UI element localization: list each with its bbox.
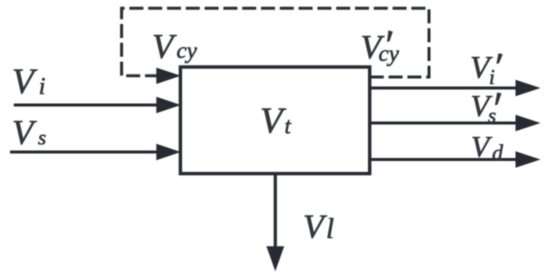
wire: output V_i' [370, 87, 518, 90]
wire: output V_l down [274, 175, 277, 248]
label V_i [12, 61, 45, 101]
svg-text:s: s [488, 104, 496, 128]
svg-text:V: V [303, 209, 328, 246]
wire: output V_s' [370, 122, 518, 125]
label V_s [12, 113, 46, 152]
label V_d [471, 131, 504, 166]
arrowhead: dashed feedback into box [156, 68, 181, 84]
arrowhead: V_i into box [156, 97, 181, 113]
arrowhead: V_s' output [516, 115, 541, 132]
svg-text:V: V [12, 113, 37, 152]
svg-text:cy: cy [177, 38, 198, 63]
label V_l [303, 209, 334, 246]
label V_s' [471, 88, 502, 128]
wire: dashed feedback loop Vcy [122, 8, 429, 77]
wire: output V_d [370, 158, 518, 161]
svg-text:V: V [260, 101, 287, 142]
svg-text:V: V [152, 27, 177, 66]
svg-text:V: V [12, 61, 38, 101]
arrowhead: V_l down [266, 246, 284, 271]
block U1 (V_t box) [180, 67, 369, 174]
arrowhead: V_d output [516, 151, 541, 168]
svg-text:cy: cy [379, 41, 400, 66]
svg-text:t: t [285, 114, 292, 139]
label V_i' [470, 49, 503, 89]
svg-text:i: i [39, 74, 46, 100]
label V_cy [152, 27, 198, 66]
arrowhead: V_i' output [516, 80, 541, 97]
svg-text:l: l [326, 213, 334, 245]
wire: input V_s [10, 151, 158, 154]
wire: input V_i [14, 104, 158, 107]
arrowhead: V_s into box [156, 144, 181, 160]
svg-text:d: d [492, 140, 504, 165]
label V'_cy [361, 29, 400, 66]
label V_t [260, 101, 292, 142]
svg-text:s: s [38, 126, 46, 150]
svg-text:i: i [489, 65, 495, 89]
